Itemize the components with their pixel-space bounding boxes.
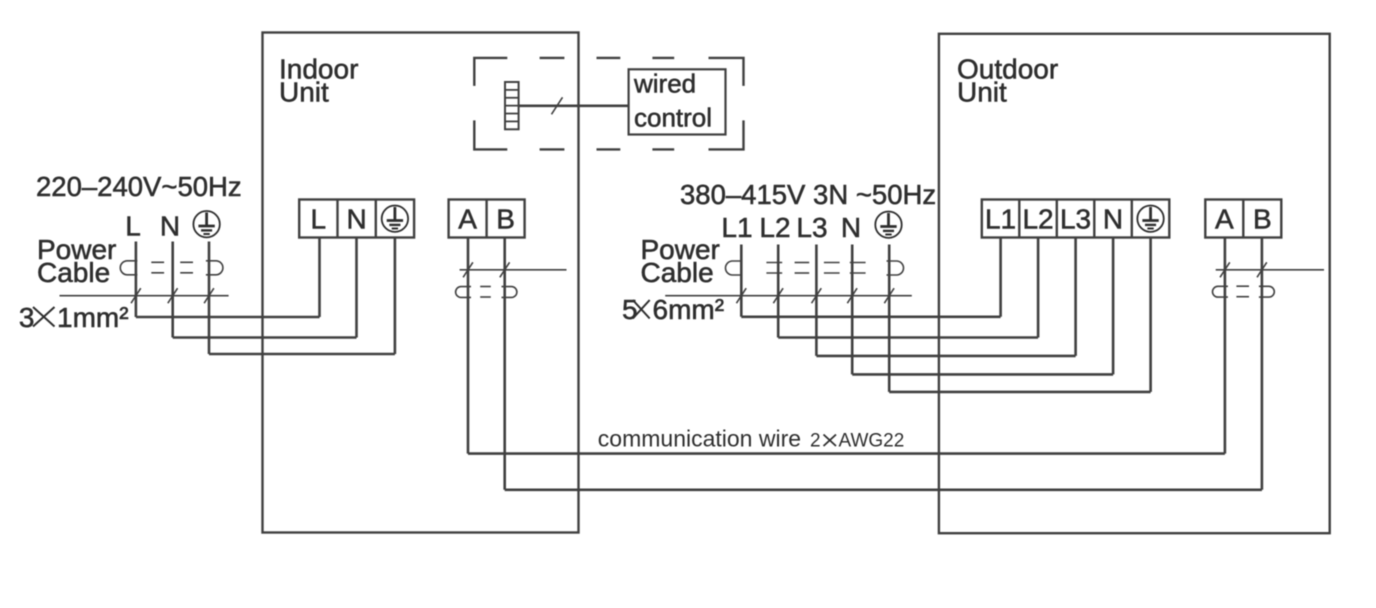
label 3x1mm2 [19, 302, 129, 333]
svg-text:L2: L2 [1022, 204, 1053, 235]
svg-text:L: L [125, 211, 141, 242]
ground symbol at cable [193, 211, 219, 237]
wire B indoor drop [503, 238, 506, 490]
communication wire A [468, 452, 1225, 455]
wire conductor L1 outdoor [741, 238, 1000, 317]
wired control box [629, 69, 726, 135]
wire conductor PE [208, 242, 211, 355]
wire conductor N [171, 242, 174, 338]
svg-text:Unit: Unit [957, 77, 1007, 108]
cable sheath 3x1 [120, 261, 223, 275]
svg-text:B: B [1253, 204, 1272, 235]
label N [160, 211, 180, 242]
label 380-415V 3N ~50Hz [680, 179, 936, 210]
outdoor unit box [939, 34, 1330, 533]
svg-text:Cable: Cable [641, 257, 714, 288]
svg-text:L1: L1 [985, 204, 1016, 235]
label N outdoor [841, 212, 861, 243]
label L [125, 211, 141, 242]
comm cable crossing line indoor [460, 262, 567, 277]
svg-text:N: N [346, 204, 366, 235]
wire conductor L2 outdoor [778, 238, 1038, 338]
svg-text:A: A [1215, 204, 1234, 235]
svg-text:wired: wired [633, 69, 696, 99]
svg-text:6mm²: 6mm² [653, 294, 725, 325]
svg-text:L3: L3 [796, 212, 827, 243]
label Power Cable outdoor [641, 234, 720, 288]
indoor unit box [263, 33, 579, 533]
wire N run [173, 238, 357, 338]
svg-text:380–415V 3N ~50Hz: 380–415V 3N ~50Hz [680, 179, 936, 210]
indoor terminal block L N PE [299, 200, 414, 238]
cable jacket line [60, 288, 229, 303]
svg-text:Unit: Unit [279, 77, 329, 108]
label communication wire [598, 426, 905, 452]
svg-text:N: N [841, 212, 861, 243]
wire B outdoor drop [1261, 238, 1264, 490]
label 220-240V~50Hz [36, 171, 242, 202]
outdoor terminal block A B [1205, 200, 1281, 238]
svg-text:AWG22: AWG22 [839, 431, 905, 452]
label Power Cable [37, 234, 116, 288]
wire conductor PE outdoor [889, 238, 1150, 392]
ground symbol at outdoor cable [875, 212, 901, 238]
outdoor terminal block L1 L2 L3 N PE [982, 200, 1170, 238]
label L1 [721, 212, 752, 243]
svg-text:A: A [458, 204, 477, 235]
svg-text:Cable: Cable [37, 257, 110, 288]
svg-text:L3: L3 [1060, 204, 1091, 235]
wire A outdoor drop [1224, 238, 1227, 454]
svg-text:control: control [634, 103, 712, 133]
svg-text:220–240V~50Hz: 220–240V~50Hz [36, 171, 242, 202]
svg-text:communication wire: communication wire [598, 426, 801, 452]
svg-text:L1: L1 [721, 212, 752, 243]
wire conductor L [135, 242, 138, 318]
comm cable sheath indoor [456, 287, 517, 298]
svg-text:L2: L2 [759, 212, 790, 243]
display connector [505, 82, 519, 129]
indoor terminal block A B [449, 200, 525, 238]
cable jacket line outdoor [665, 288, 912, 303]
wire conductor N outdoor [852, 238, 1113, 375]
label 5x6mm2 [622, 294, 724, 325]
wire conductor L3 outdoor [816, 238, 1075, 356]
svg-text:B: B [496, 204, 515, 235]
label L2 [759, 212, 790, 243]
svg-text:L: L [311, 204, 327, 235]
svg-text:5: 5 [622, 294, 638, 325]
label Outdoor Unit [957, 54, 1058, 108]
wire A indoor drop [467, 238, 470, 454]
comm cable crossing line outdoor [1216, 262, 1324, 277]
svg-text:N: N [160, 211, 180, 242]
svg-text:2: 2 [810, 431, 821, 452]
communication wire B [505, 488, 1262, 491]
wire PE run [209, 238, 395, 355]
wire to wired control [519, 97, 629, 114]
dashed display enclosure [474, 58, 743, 149]
svg-text:3: 3 [19, 302, 35, 333]
label Indoor Unit [279, 54, 358, 108]
svg-text:N: N [1103, 204, 1123, 235]
comm cable sheath outdoor [1213, 286, 1275, 297]
wire L run [136, 238, 320, 318]
label L3 [796, 212, 827, 243]
svg-text:1mm²: 1mm² [57, 302, 129, 333]
cable sheath 5x6 [726, 261, 904, 275]
